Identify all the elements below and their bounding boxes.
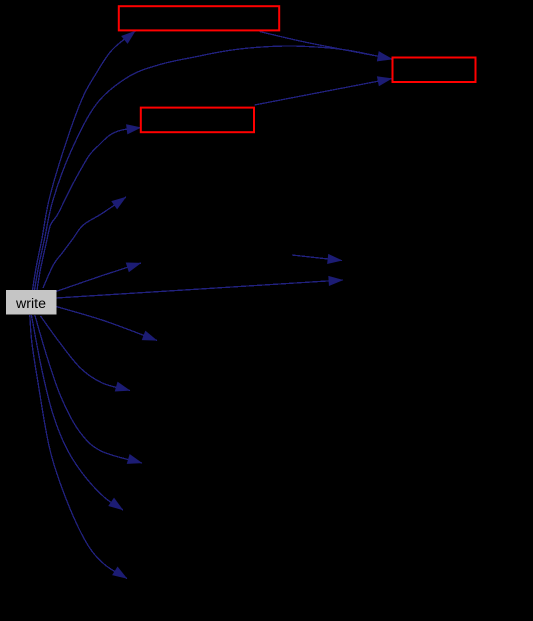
svg-text:write: write [15,296,46,312]
